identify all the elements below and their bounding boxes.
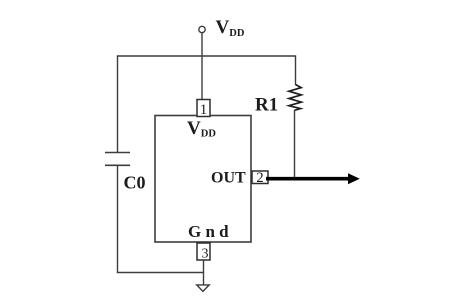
svg-text:VDD: VDD xyxy=(216,17,245,39)
wire bottom rail horizontal to ground stem xyxy=(117,272,204,274)
svg-text:OUT: OUT xyxy=(211,169,246,186)
capacitor C0 top plate xyxy=(105,152,130,154)
svg-text:1: 1 xyxy=(200,102,208,118)
svg-text:R1: R1 xyxy=(255,95,278,116)
pin 2 box xyxy=(252,171,268,184)
wire from pin 3 down to ground xyxy=(203,260,205,285)
svg-text:C0: C0 xyxy=(124,172,146,192)
IC U1 body xyxy=(155,116,251,243)
pin 1 box xyxy=(197,100,210,117)
capacitor C0 bottom plate xyxy=(105,164,130,166)
wire from VDD terminal down to pin 1 xyxy=(201,33,203,100)
node VDD terminal circle xyxy=(199,26,205,32)
svg-text:3: 3 xyxy=(202,247,209,262)
wire top rail horizontal xyxy=(118,55,296,57)
svg-text:2: 2 xyxy=(256,170,263,186)
wire from resistor R1 down to OUT line xyxy=(294,110,296,178)
svg-text:G n d: G n d xyxy=(188,222,229,241)
resistor R1 zigzag xyxy=(289,85,301,111)
wire left rail below C0 down to bottom rail xyxy=(117,165,119,272)
wire left rail from top rail down to capacitor C0 xyxy=(117,55,119,152)
OUT arrowhead xyxy=(348,173,360,184)
OUT arrow thick line xyxy=(266,177,350,181)
wire from top rail down to resistor R1 xyxy=(295,55,297,85)
pin 3 box xyxy=(197,243,210,260)
ground symbol triangle xyxy=(197,285,210,292)
